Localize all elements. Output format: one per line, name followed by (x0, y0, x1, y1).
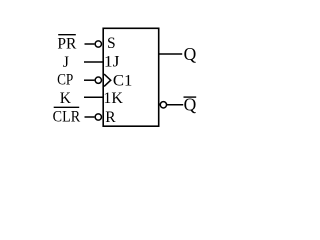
bubble CP input (active-low clock) (95, 77, 101, 83)
bubble Q-bar output (160, 102, 166, 108)
svg-text:PR: PR (57, 35, 77, 52)
svg-text:CP: CP (57, 72, 73, 89)
svg-text:J: J (63, 54, 69, 71)
svg-text:K: K (60, 90, 72, 107)
wire CLR input (85, 116, 95, 118)
svg-text:S: S (107, 35, 116, 52)
svg-text:Q: Q (184, 44, 197, 64)
wire CP input (84, 79, 94, 81)
svg-text:1J: 1J (104, 53, 120, 70)
svg-text:1K: 1K (103, 90, 123, 107)
flip-flop body U1 (103, 28, 159, 126)
wire Q-bar output (167, 104, 183, 106)
overline of CLR (54, 106, 79, 108)
svg-text:CLR: CLR (53, 108, 81, 125)
dynamic input triangle C1 (104, 74, 111, 86)
svg-text:C1: C1 (113, 72, 132, 89)
wire J input (84, 61, 103, 63)
overline of Q-bar (184, 96, 197, 98)
wire PR input (85, 43, 95, 45)
bubble S input (active-low) (95, 41, 101, 47)
wire K input (84, 96, 103, 98)
svg-text:R: R (105, 109, 116, 126)
overline of PR (58, 34, 76, 36)
JK flip-flop logic symbol (0, 0, 276, 134)
bubble R input (active-low) (95, 114, 101, 120)
wire Q output (159, 53, 182, 55)
